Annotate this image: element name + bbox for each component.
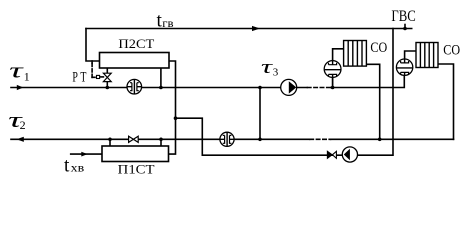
svg-text:2: 2: [20, 118, 26, 132]
wire tau2 dashed portion: [310, 138, 331, 140]
wire left leg down to P2ST left port: [86, 29, 100, 62]
heat meter of CO-2: [396, 59, 412, 75]
wire P2ST bottom-right stub: [160, 68, 162, 88]
svg-text:гв: гв: [162, 16, 174, 30]
wire t_gv hot-water supply top line: [86, 28, 412, 30]
wire actuator stub to valve: [100, 76, 104, 78]
svg-text:СО: СО: [370, 40, 387, 56]
node P2ST outlet on tau1: [159, 86, 163, 90]
svg-text:t: t: [64, 154, 70, 176]
wire circulation branch: tee, down, bottom line, riser up to t_gv: [176, 29, 394, 156]
wire t_xv cold water inlet: [71, 153, 102, 155]
node mixing tee bottom: [258, 138, 262, 142]
wire impulse dashed elbow to actuator: [92, 76, 96, 78]
wire tau2 return line solid left part: [11, 138, 310, 140]
radiator CO-1: [344, 41, 367, 67]
heat meter of CO-1 (circle on vertical pipe): [324, 61, 341, 88]
wire impulse tap tick: [91, 61, 93, 63]
wire CO-1 meter to radiator-1: [333, 49, 344, 61]
wire tau1 dashed portion: [308, 87, 332, 89]
node CO-1 feed tee: [331, 86, 335, 90]
wire CO-1 feed vertical: [332, 61, 334, 88]
wire GVS tap stub: [404, 25, 406, 29]
arrow on t_gv line: [252, 26, 260, 31]
wire tau2 return line right part: [331, 138, 454, 140]
radiator CO-2: [416, 43, 438, 68]
svg-text:τ: τ: [9, 58, 24, 83]
svg-text:П1СТ: П1СТ: [118, 162, 155, 177]
wire mixing tee vertical: [259, 88, 261, 140]
arrow on t_xv line: [81, 152, 87, 157]
arrow on tau2 line (pointing left): [16, 137, 23, 142]
svg-text:П2СТ: П2СТ: [118, 36, 154, 51]
node GVS tap on t_gv line: [403, 27, 407, 31]
node circulation tee on riser: [174, 116, 178, 120]
node mixing tee top: [258, 86, 262, 90]
wire P2ST bottom-left stub above valve: [106, 68, 108, 73]
node valve to tau1 junction: [106, 86, 110, 90]
wire radiator-2 return: [438, 64, 454, 139]
svg-text:СО: СО: [443, 43, 460, 59]
wire P1ST top-right stub: [160, 139, 162, 146]
svg-text:Р Т: Р Т: [72, 70, 86, 86]
arrow on tau1 line: [17, 85, 24, 90]
flow meter 2 on return line: [220, 132, 234, 146]
wire CO-2 meter to radiator-2: [405, 51, 416, 59]
wire tau1 continuation to CO-2 feed corner: [331, 75, 404, 87]
node radiator-1 return tee: [378, 138, 382, 142]
svg-text:3: 3: [273, 67, 279, 79]
wire P2ST bottom-left stub below valve: [106, 82, 108, 88]
node P1ST inlet on return: [108, 138, 112, 142]
regulator actuator square: [97, 75, 100, 78]
flow meter 1 on tau1 line: [127, 79, 142, 94]
svg-text:1: 1: [24, 70, 30, 84]
circulation pump (circle with filled left triangle): [342, 147, 357, 162]
wire P1ST top-left stub: [109, 139, 111, 146]
pump tau3 (circle with filled right triangle): [281, 79, 297, 95]
wire P2ST right port and interstage riser down to P1ST right port: [169, 61, 176, 154]
svg-text:хв: хв: [71, 161, 85, 175]
svg-text:ГВС: ГВС: [391, 8, 415, 25]
wire impulse dashed line of regulator RT: [91, 64, 93, 78]
wire radiator-1 return: [366, 64, 379, 139]
heat exchanger P2ST (2nd stage): [100, 53, 170, 69]
heat exchanger P1ST (1st stage): [102, 146, 169, 162]
check valve on circulation line: [327, 151, 336, 158]
bypass valve on return line (horizontal bowtie): [129, 136, 139, 142]
wire tau1 network supply line: [11, 87, 307, 89]
node P1ST outlet on return: [159, 138, 163, 142]
regulator valve RT (vertical bowtie): [103, 73, 111, 81]
